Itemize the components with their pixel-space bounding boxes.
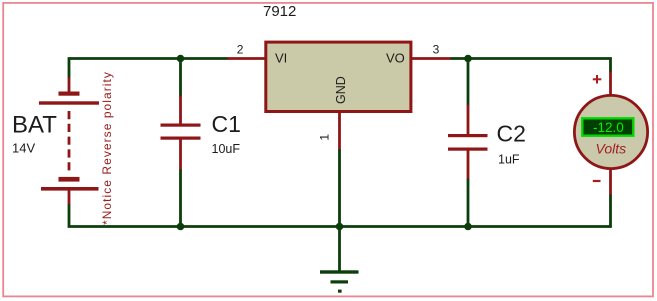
wire node A down to C1 (179, 59, 182, 97)
bottom net junction at C2 (464, 223, 472, 231)
wire pin 1 stub (338, 111, 341, 151)
ground (320, 270, 359, 292)
svg-text:10uF: 10uF (212, 142, 241, 156)
wire C1 bottom lead (179, 139, 182, 171)
wire C1 top lead (179, 96, 182, 125)
wire node A to pin 2 (pin stub) (227, 57, 267, 60)
wire C2 top lead (467, 105, 470, 136)
wire meter - lead (609, 168, 612, 196)
svg-text:GND: GND (334, 76, 348, 104)
battery BAT (39, 78, 99, 205)
bottom net junction at C1 (177, 223, 185, 231)
wire pin 1 to bottom net (338, 150, 341, 228)
svg-text:3: 3 (433, 42, 440, 56)
svg-text:1: 1 (318, 134, 332, 141)
wire meter + lead (609, 72, 612, 97)
svg-text:7912: 7912 (263, 3, 296, 20)
wire C1 to bottom net (179, 170, 182, 228)
svg-text:-12.0: -12.0 (593, 120, 624, 135)
bottom net junction at ground (336, 223, 344, 231)
svg-text:C2: C2 (497, 121, 526, 147)
wire node B down to C2 (467, 59, 470, 106)
wire C2 to bottom net (467, 179, 470, 228)
svg-text:VI: VI (275, 51, 287, 66)
voltmeter body (574, 95, 647, 168)
wire C2 bottom lead (467, 150, 470, 180)
svg-text:BAT: BAT (12, 111, 57, 138)
node A junction (177, 55, 185, 63)
svg-text:C1: C1 (212, 111, 241, 137)
wire bottom net to ground (338, 227, 341, 272)
node B junction (464, 55, 472, 63)
svg-text:*Notice Reverse polarity: *Notice Reverse polarity (100, 71, 114, 225)
voltmeter minus mark (593, 180, 601, 182)
svg-text:14V: 14V (12, 140, 35, 155)
wire bottom net (69, 195, 611, 227)
wire pin 3 stub (410, 57, 452, 60)
voltmeter display (582, 118, 633, 135)
voltmeter plus mark (593, 75, 602, 84)
capacitor C1 (161, 124, 201, 140)
svg-text:Volts: Volts (596, 140, 627, 156)
capacitor C2 (448, 134, 488, 151)
svg-text:VO: VO (386, 51, 405, 66)
wire battery top to node A (69, 59, 228, 79)
svg-text:1uF: 1uF (498, 152, 520, 166)
wire pin 3 to node B and meter (451, 59, 611, 73)
regulator U1 (7912) (266, 42, 411, 111)
svg-text:2: 2 (237, 43, 244, 57)
